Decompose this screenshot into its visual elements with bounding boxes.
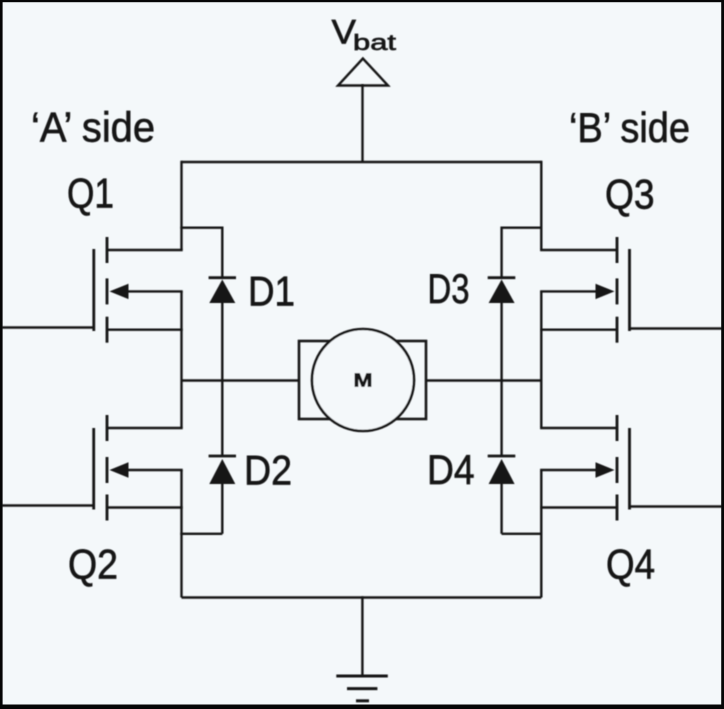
- svg-text:Q4: Q4: [606, 541, 655, 588]
- transistor Q1: [94, 237, 107, 343]
- label Vbat: [332, 14, 397, 55]
- wire top rail: [182, 161, 542, 163]
- svg-text:Q3: Q3: [605, 171, 655, 218]
- svg-text:D2: D2: [244, 447, 292, 494]
- wire D1 anode / D2 cathode lead: [221, 303, 223, 456]
- transistor Q2: [94, 415, 107, 521]
- svg-text:‘B’ side: ‘B’ side: [569, 104, 690, 151]
- diode D1: [209, 278, 236, 303]
- wire Q2 gate lead to left edge: [2, 504, 94, 506]
- transistor Q1 body arrow: [110, 284, 129, 299]
- wire right lower trunk (Q4 source to bottom rail): [540, 470, 542, 598]
- wire Q4 gate lead to right edge: [630, 505, 723, 507]
- wire D1 cathode lead: [221, 227, 223, 278]
- wire Q1 gate lead to left edge: [2, 326, 94, 328]
- transistor Q4: [617, 415, 630, 521]
- svg-text:D3: D3: [428, 265, 470, 312]
- wire D4 anode jog: [502, 533, 543, 535]
- wire Q4 body shaft: [540, 469, 606, 471]
- wire jog to D3 cathode: [502, 226, 543, 228]
- diode D3: [488, 278, 516, 303]
- transistor Q3: [617, 237, 630, 343]
- wire right upper trunk (Vbat to Q3 drain): [540, 161, 542, 250]
- wire Q2 source terminal: [107, 506, 183, 508]
- wire Q1 source terminal: [107, 329, 183, 331]
- wire Q3 drain terminal: [540, 249, 617, 251]
- svg-text:D4: D4: [427, 446, 475, 493]
- wire Q4 drain terminal: [540, 427, 617, 429]
- wire D4 anode lead: [500, 484, 502, 534]
- wire Q2 drain terminal: [107, 427, 183, 429]
- diode D2: [209, 456, 236, 484]
- wire Q1 drain terminal: [107, 249, 183, 251]
- transistor Q3 body arrow: [596, 284, 615, 299]
- svg-text:‘A’ side: ‘A’ side: [31, 104, 155, 151]
- svg-text:M: M: [354, 371, 373, 391]
- wire D2 anode lead: [221, 484, 223, 534]
- wire D3 cathode lead: [500, 227, 502, 278]
- wire left lower trunk (Q2 source to bottom rail): [180, 470, 182, 598]
- svg-text:Q1: Q1: [67, 169, 114, 216]
- wire Q3 source terminal: [540, 329, 617, 331]
- wire left mid rail to motor: [182, 379, 300, 381]
- diode D4: [488, 456, 516, 484]
- wire Q4 source terminal: [540, 506, 617, 508]
- wire right output trunk (Q3 source to Q4 drain): [540, 291, 542, 428]
- wire D3 anode / D4 cathode lead: [500, 303, 502, 456]
- wire D2 anode jog: [180, 533, 222, 535]
- svg-text:D1: D1: [248, 268, 295, 315]
- ground: [336, 676, 388, 701]
- wire jog to D1 cathode: [180, 226, 222, 228]
- wire bottom rail: [182, 596, 542, 598]
- wire Vbat stem: [361, 84, 363, 162]
- wire ground stem: [361, 596, 363, 676]
- wire left upper trunk (Vbat to Q1 drain): [180, 161, 182, 250]
- wire Q3 gate lead to right edge: [630, 327, 723, 329]
- wire right mid rail to motor: [426, 379, 541, 381]
- svg-text:bat: bat: [353, 30, 396, 55]
- transistor Q4 body arrow: [596, 462, 615, 477]
- wire Q3 body shaft: [540, 290, 606, 292]
- motor M: [299, 329, 426, 431]
- svg-text:Q2: Q2: [68, 541, 118, 588]
- transistor Q2 body arrow: [110, 462, 129, 477]
- wire left output trunk (Q1 source to Q2 drain): [180, 291, 182, 428]
- wire Q1 body shaft: [118, 290, 183, 292]
- power symbol Vbat triangle: [338, 59, 388, 86]
- wire Q2 body shaft: [118, 469, 183, 471]
